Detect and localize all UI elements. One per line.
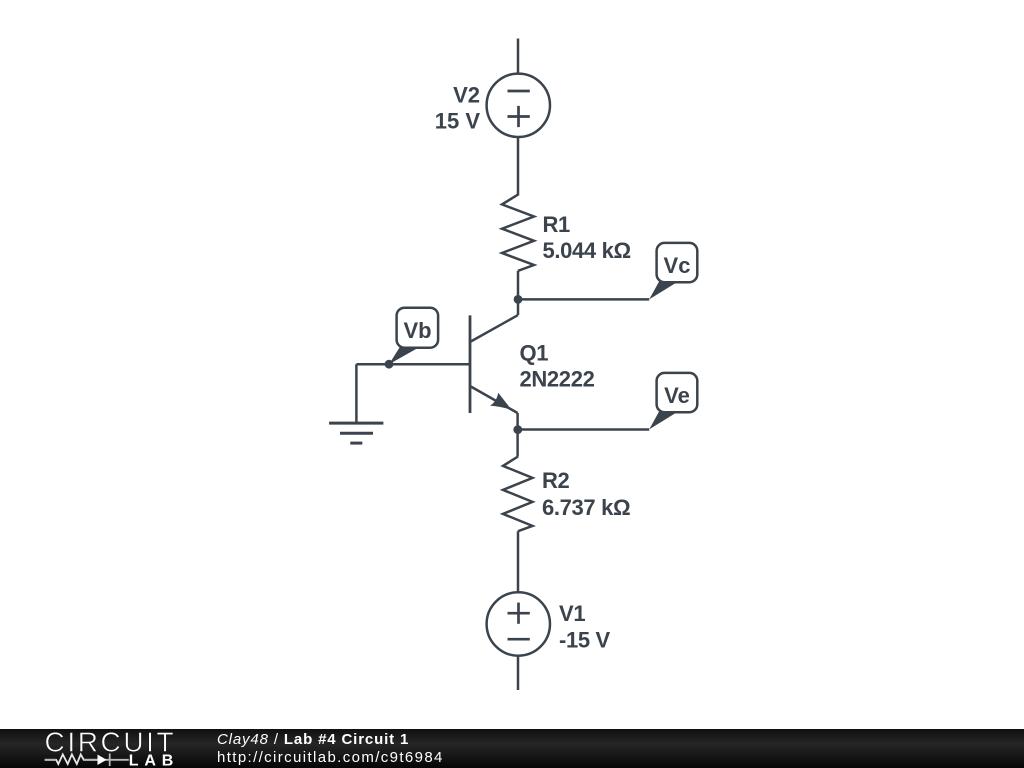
svg-text:Vb: Vb (403, 318, 431, 343)
label V2 15 V (435, 82, 481, 133)
label Q1 2N2222 (520, 340, 595, 391)
label R1 5.044 kΩ (543, 212, 631, 263)
wire R2 to V1 (517, 531, 520, 591)
flag Ve (649, 373, 697, 430)
label R2 6.737 kΩ (542, 468, 630, 520)
flag Vb (389, 308, 438, 365)
svg-text:LAB: LAB (129, 752, 179, 768)
wire emitter node to Ve flag (518, 428, 649, 431)
flag Vc (649, 243, 697, 300)
voltage source V1 (487, 592, 550, 655)
svg-text:Vc: Vc (664, 253, 691, 278)
wire base corner down to ground (355, 364, 358, 423)
wire emitter to R2 (516, 413, 519, 457)
svg-text:R1: R1 (543, 212, 571, 237)
svg-text:2N2222: 2N2222 (520, 366, 595, 391)
svg-text:Ve: Ve (664, 383, 690, 408)
wire V2 to R1 (517, 137, 520, 196)
voltage source V2 (487, 74, 550, 137)
svg-text:R2: R2 (542, 468, 570, 493)
svg-text:V1: V1 (559, 601, 585, 626)
footer title text (217, 731, 409, 748)
CircuitLab logo (0, 729, 200, 768)
footer url text (217, 749, 444, 766)
wire base (356, 363, 470, 366)
svg-text:Q1: Q1 (520, 340, 549, 365)
svg-text:-15 V: -15 V (559, 628, 611, 653)
transistor Q1 (470, 315, 518, 413)
wire collector node to Vc flag (518, 298, 649, 301)
label V1 -15 V (559, 601, 611, 653)
wire bottom from V1 (517, 656, 520, 690)
wire R1 to collector node (517, 271, 520, 315)
footer bar (0, 729, 1024, 768)
ground (329, 423, 383, 443)
wire top feed to V2 (517, 39, 520, 74)
node emitter junction (513, 425, 522, 434)
resistor R1 (502, 195, 534, 271)
svg-text:V2: V2 (453, 82, 480, 107)
node base junction (385, 360, 394, 369)
node collector junction (514, 295, 523, 304)
svg-text:6.737 kΩ: 6.737 kΩ (542, 495, 630, 520)
resistor R2 (503, 457, 533, 532)
svg-text:15 V: 15 V (435, 109, 481, 134)
svg-text:5.044 kΩ: 5.044 kΩ (543, 238, 631, 263)
